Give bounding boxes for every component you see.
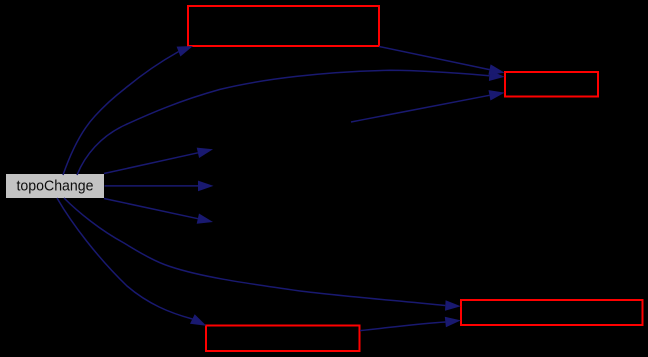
node topoChange (6, 174, 104, 198)
box bottom-right (red, empty label) (461, 300, 643, 325)
arrowhead B (489, 70, 505, 81)
edge A: topoChange -> top box (63, 52, 179, 175)
box bottom-middle (red, empty label) (206, 326, 360, 352)
box right (red, empty label) (505, 72, 598, 97)
arrowhead D (489, 90, 505, 100)
arrowhead F (445, 317, 461, 328)
arrowhead arrow1 (197, 148, 213, 158)
svg-text:topoChange: topoChange (17, 178, 94, 195)
edge B: topoChange -> right box (long upper curve) (77, 70, 489, 175)
edge D: hidden node -> right box (351, 95, 489, 122)
edge F: bottom-middle box -> bottom-right box (360, 322, 445, 331)
arrowhead arrow3 (197, 214, 213, 224)
arrowhead E (445, 300, 461, 311)
box top (red, empty label) (188, 6, 379, 46)
edge arrow3: topoChange -> hidden node 3 (104, 199, 198, 219)
arrowhead G (190, 314, 206, 326)
arrowhead C (488, 64, 504, 74)
edge arrow1: topoChange -> hidden node 1 (104, 153, 198, 174)
edge G: topoChange -> bottom-middle box (57, 198, 192, 319)
edge E: topoChange -> bottom-right box (long lower curve) (64, 198, 445, 306)
arrowhead A (177, 46, 193, 57)
arrowhead arrow2 (198, 181, 214, 192)
edge C: top box -> right box (379, 47, 490, 70)
edge arrow2: topoChange -> hidden node 2 (105, 185, 199, 187)
